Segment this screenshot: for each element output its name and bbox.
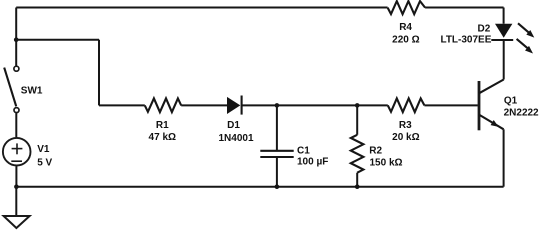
label SW1 xyxy=(21,86,43,97)
LED D2 light arrow 2 xyxy=(517,39,533,54)
wire bottom rail xyxy=(16,186,503,188)
junction node B (C1 top) xyxy=(275,103,280,108)
resistor R3 xyxy=(388,98,425,112)
wire D1 to node B xyxy=(242,104,277,106)
value label 150 kOhm xyxy=(370,157,403,168)
label Q1 xyxy=(504,96,518,107)
resistor R4 xyxy=(388,1,426,14)
wire top rail right of R4 xyxy=(425,7,504,9)
label R4 xyxy=(399,22,412,33)
svg-text:R3: R3 xyxy=(399,120,412,131)
svg-text:D1: D1 xyxy=(227,120,240,131)
wire node C to R3 xyxy=(357,104,388,106)
wire node A tap horizontal xyxy=(16,39,99,41)
ground xyxy=(4,216,30,228)
voltage source V1 xyxy=(3,138,31,166)
svg-text:LTL-307EE: LTL-307EE xyxy=(440,35,491,46)
svg-text:SW1: SW1 xyxy=(21,86,43,97)
capacitor C1 xyxy=(260,105,293,186)
svg-text:5 V: 5 V xyxy=(37,158,52,169)
diode D1 xyxy=(227,96,242,115)
svg-text:Q1: Q1 xyxy=(504,96,518,107)
value label 220 Ohm xyxy=(392,34,419,45)
wire left rail to switch xyxy=(15,8,17,66)
label R3 xyxy=(399,120,412,131)
junction node A on left rail xyxy=(14,37,19,42)
wire to ground symbol xyxy=(15,187,17,216)
wire emitter to bottom rail xyxy=(503,129,505,186)
svg-text:V1: V1 xyxy=(37,144,50,155)
label R1 xyxy=(156,120,169,131)
label D2 xyxy=(478,23,491,34)
wire top rail left of R4 xyxy=(16,7,387,9)
junction node C (R2 top) xyxy=(355,103,360,108)
resistor R2 xyxy=(351,105,364,186)
junction ground node xyxy=(14,184,19,189)
svg-text:2N2222: 2N2222 xyxy=(504,108,539,119)
value label 5 V xyxy=(37,158,52,169)
svg-text:R1: R1 xyxy=(156,120,169,131)
junction C1 bottom xyxy=(275,184,280,189)
svg-text:20 kΩ: 20 kΩ xyxy=(392,132,419,143)
svg-text:D2: D2 xyxy=(478,23,491,34)
label D1 xyxy=(227,120,240,131)
label C1 xyxy=(297,146,310,157)
wire switch to V1 xyxy=(15,113,17,137)
svg-text:220 Ω: 220 Ω xyxy=(392,34,419,45)
svg-text:100 µF: 100 µF xyxy=(297,156,328,167)
resistor R1 xyxy=(145,98,181,112)
switch SW1 xyxy=(4,66,19,112)
svg-text:47 kΩ: 47 kΩ xyxy=(149,132,176,143)
svg-text:150 kΩ: 150 kΩ xyxy=(370,157,403,168)
LED D2 xyxy=(491,24,513,40)
wire node B to node C xyxy=(277,104,357,106)
value label 20 kOhm xyxy=(392,132,419,143)
label V1 xyxy=(37,144,50,155)
svg-text:C1: C1 xyxy=(297,146,310,157)
transistor Q1 xyxy=(479,80,504,131)
label R2 xyxy=(369,145,382,156)
value label 2N2222 xyxy=(504,108,539,119)
wire R3 to Q1 base xyxy=(424,104,477,106)
svg-text:R4: R4 xyxy=(399,22,412,33)
wire vertical drop to R1 level xyxy=(98,40,100,106)
value label 47 kOhm xyxy=(149,132,176,143)
wire V1 to ground node xyxy=(15,166,17,186)
value label 1N4001 xyxy=(218,133,253,144)
wire to R1 xyxy=(99,104,145,106)
wire R1 to D1 xyxy=(181,104,227,106)
value label LTL-307EE xyxy=(440,35,491,46)
value label 100 uF xyxy=(297,156,328,167)
wire collector to LED cathode xyxy=(503,40,505,80)
LED D2 light arrow 1 xyxy=(518,23,534,37)
junction R2 bottom xyxy=(355,184,360,189)
svg-text:R2: R2 xyxy=(369,145,382,156)
wire top rail drop to LED anode xyxy=(503,8,505,24)
svg-text:1N4001: 1N4001 xyxy=(218,133,253,144)
